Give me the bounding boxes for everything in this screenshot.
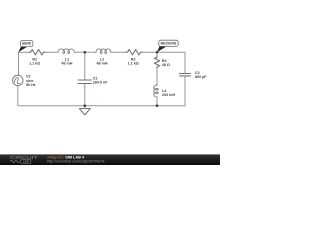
svg-text:284.5 nF: 284.5 nF xyxy=(93,81,109,85)
svg-text:RECEIVE: RECEIVE xyxy=(161,42,177,46)
svg-text:1.1 kΩ: 1.1 kΩ xyxy=(29,62,40,66)
svg-text:48 Ω: 48 Ω xyxy=(162,63,170,67)
svg-text:48 mH: 48 mH xyxy=(61,62,72,66)
svg-text:http://circuitlab.com/c/qfp287: http://circuitlab.com/c/qfp2876fw78 xyxy=(47,159,105,163)
svg-text:SEND: SEND xyxy=(22,42,32,46)
svg-text:48 mH: 48 mH xyxy=(96,62,107,66)
svg-text:200 mH: 200 mH xyxy=(162,93,175,97)
svg-text:1.1 kΩ: 1.1 kΩ xyxy=(128,62,139,66)
svg-text:50 Hz: 50 Hz xyxy=(26,83,36,87)
svg-text:800 µF: 800 µF xyxy=(195,75,207,79)
svg-text:LAB: LAB xyxy=(23,160,29,164)
